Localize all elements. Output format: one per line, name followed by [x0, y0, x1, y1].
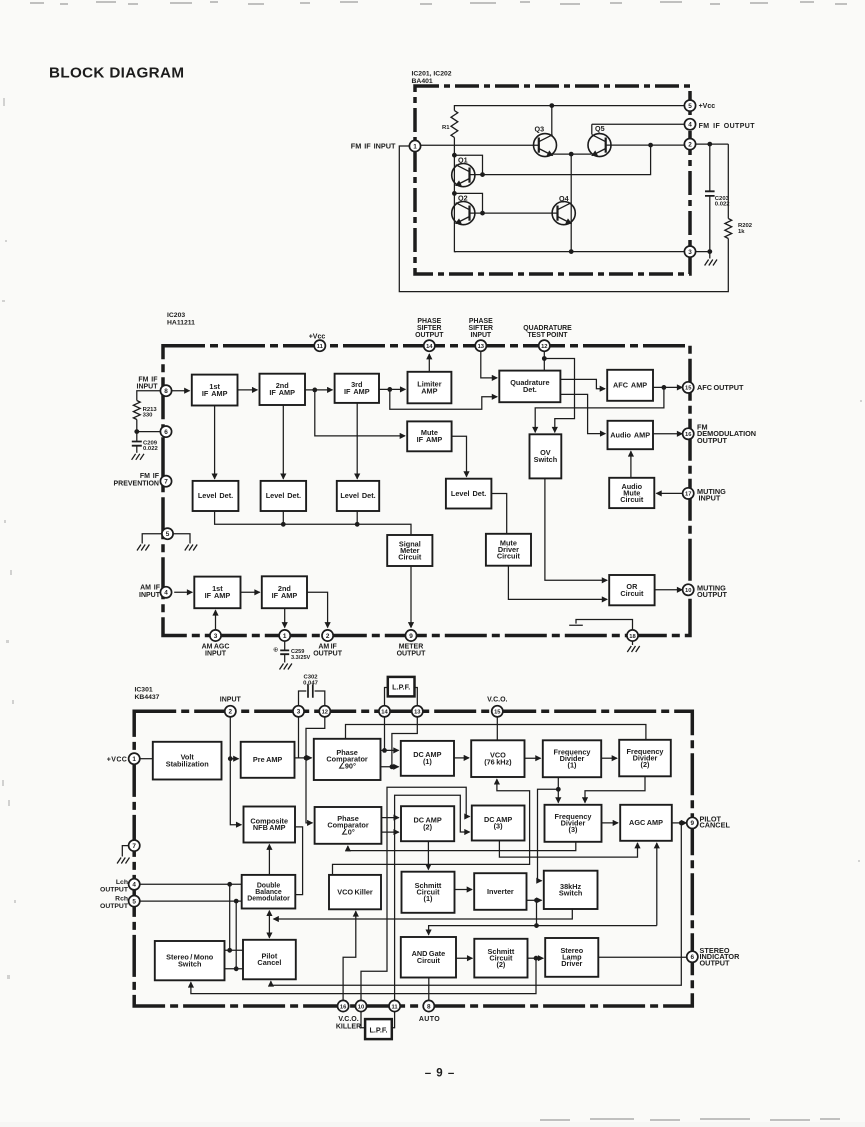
svg-text:(2): (2): [641, 760, 650, 769]
label PILOT CANCEL: [700, 814, 731, 829]
junction Q2 base: [480, 211, 485, 216]
svg-text:Q4: Q4: [559, 194, 569, 203]
svg-text:3: 3: [297, 709, 301, 716]
wire R213 bottom to pin6 node: [137, 420, 161, 432]
block Pilot Cancel: [243, 940, 296, 980]
junction pin14 tap: [382, 748, 387, 753]
wire composite NFB amp to demodulator: [295, 827, 303, 895]
wire Q5 base to pin2 rail: [606, 144, 685, 146]
svg-text:SIFTER: SIFTER: [469, 325, 494, 332]
block AGC AMP: [620, 805, 672, 841]
svg-text:L.P.F.: L.P.F.: [369, 1025, 387, 1034]
pin 2 (input): [225, 706, 236, 717]
wire pin13 to quadrature det: [481, 352, 497, 378]
svg-text:AM IF: AM IF: [140, 585, 161, 592]
junction Q1 emitter / Q2 collector: [452, 191, 457, 196]
wire mute driver to OR circuit: [508, 566, 607, 600]
pin 13b: [412, 706, 423, 717]
svg-text:11: 11: [392, 1004, 399, 1010]
svg-text:OUTPUT: OUTPUT: [697, 590, 728, 599]
label MUTING OUTPUT: [697, 584, 728, 599]
svg-text:⊕: ⊕: [273, 647, 279, 654]
block OR Circuit: [609, 575, 654, 605]
svg-text:Q5: Q5: [595, 124, 605, 133]
svg-text:PHASE: PHASE: [417, 318, 441, 325]
svg-text:Circuit: Circuit: [620, 495, 644, 504]
wire stereo/mono to pilot cancel upper stub: [225, 949, 244, 951]
label +Vcc: [699, 103, 716, 110]
svg-text:INPUT: INPUT: [697, 493, 721, 502]
junction AFC output: [662, 385, 667, 390]
pin 4 (AM IF input): [160, 587, 171, 598]
svg-text:Circuit: Circuit: [398, 552, 422, 561]
svg-text:+Vcc: +Vcc: [699, 103, 716, 110]
pin 3 (AM AGC input): [210, 630, 221, 641]
svg-text:8: 8: [427, 1003, 431, 1010]
junction after 2nd IF AMP: [312, 388, 317, 393]
wire OV switch to OR circuit: [545, 478, 607, 580]
wire schmitt 2 net to stereo/mono switch: [191, 958, 536, 993]
svg-text:(1): (1): [568, 761, 577, 770]
block Stereo/Mono Switch: [155, 941, 225, 980]
label FM IF INPUT (pin8): [137, 376, 159, 390]
resistor R213 body: [133, 401, 140, 420]
svg-text:12: 12: [322, 710, 328, 716]
svg-text:IF AMP: IF AMP: [269, 388, 295, 397]
pin 6 (stereo indicator): [687, 951, 698, 962]
block Stereo Lamp Driver: [545, 938, 598, 977]
svg-text:4: 4: [132, 882, 136, 889]
svg-text:AUTO: AUTO: [419, 1016, 440, 1023]
label AM IF OUTPUT: [313, 643, 343, 657]
label Rch OUTPUT: [115, 896, 128, 903]
svg-text:OUTPUT: OUTPUT: [313, 651, 343, 658]
L.P.F. box (top, external): [388, 677, 415, 697]
wire pin12 tap to OV switch: [544, 359, 574, 433]
svg-text:2: 2: [229, 709, 233, 716]
pin 7 (FM IF prevention): [160, 476, 171, 487]
pin 15 (VCO): [492, 706, 503, 717]
block 38kHz Switch: [544, 871, 598, 909]
pin 16 (VCO killer): [338, 1000, 349, 1011]
pin 16 (FM demodulation output): [683, 428, 694, 439]
svg-text:INPUT: INPUT: [139, 592, 161, 599]
svg-text:(3): (3): [494, 822, 503, 831]
pin 5: [162, 528, 173, 539]
wire pin12 into quadrature det top: [543, 352, 545, 371]
capacitor C209: [132, 442, 142, 446]
svg-text:12: 12: [541, 344, 547, 350]
resistor R1 body: [451, 111, 458, 138]
wire bottom rail to pin3: [454, 251, 684, 253]
wire level det 3 drop: [356, 511, 358, 524]
svg-text:FM IF INPUT: FM IF INPUT: [351, 142, 396, 151]
wire 1st to 2nd IF AMP: [238, 389, 258, 391]
IC201/202 package outline (dash-dot border): [415, 86, 690, 274]
wire schmitt 1 to inverter: [455, 889, 473, 891]
pin 3: [684, 246, 695, 257]
pin 14 (phase sifter output): [424, 340, 435, 351]
svg-text:Circuit: Circuit: [417, 956, 441, 965]
svg-text:5: 5: [132, 898, 136, 905]
wire level det 2 drop: [282, 511, 284, 524]
wire Q3 collector to Vcc rail: [551, 106, 553, 135]
block OV Switch: [530, 434, 562, 478]
label C203 0.022: [715, 196, 730, 208]
svg-text:FM IF: FM IF: [138, 376, 158, 383]
svg-text:– 9 –: – 9 –: [425, 1068, 456, 1080]
svg-text:(76 kHz): (76 kHz): [484, 757, 512, 766]
capacitor C259 polarity mark: [273, 647, 279, 654]
block Level Det. 3: [337, 481, 379, 511]
wire pre amp to phase comparator 90: [295, 757, 312, 759]
transistor Q5: [588, 124, 611, 156]
svg-text:Q1: Q1: [458, 155, 468, 164]
svg-text:INPUT: INPUT: [205, 651, 227, 658]
svg-text:2: 2: [326, 633, 330, 640]
svg-text:AFC OUTPUT: AFC OUTPUT: [697, 383, 744, 392]
label Lch OUTPUT: [116, 879, 128, 886]
svg-text:V.C.O.: V.C.O.: [487, 696, 507, 703]
pin 2 (AM IF output): [322, 630, 333, 641]
svg-text:(1): (1): [423, 757, 432, 766]
svg-text:+Vcc: +Vcc: [309, 334, 326, 341]
svg-text:Demodulator: Demodulator: [247, 896, 290, 903]
page number -9-: [425, 1068, 456, 1080]
svg-text:QUADRATURE: QUADRATURE: [523, 325, 572, 332]
pin 15 (AFC output): [683, 382, 694, 393]
wire 38kHz switch to demodulator: [274, 909, 573, 919]
label FM IF PREVENTION: [113, 473, 159, 487]
block Quadrature Det.: [499, 371, 560, 403]
svg-text:Lch: Lch: [116, 879, 128, 886]
svg-text:(1): (1): [424, 894, 433, 903]
block Frequency Divider (2): [619, 740, 671, 777]
wire 3rd IF AMP to Limiter AMP: [379, 388, 405, 390]
svg-text:18: 18: [629, 634, 636, 640]
wire Q1 node down to Q2: [453, 155, 455, 193]
label PHASE SIFTER INPUT: [469, 318, 494, 339]
junction AGC output: [679, 821, 684, 826]
svg-text:OUTPUT: OUTPUT: [100, 886, 129, 893]
svg-text:Audio AMP: Audio AMP: [610, 430, 650, 439]
pin 11 (+Vcc): [314, 340, 325, 351]
wire 3rd IF to level det 3: [356, 403, 358, 479]
wire AFC feedback to OV switch: [535, 387, 664, 432]
ground below C259: [280, 664, 292, 670]
wire Q2 emitter down to bottom rail corner: [454, 193, 456, 251]
svg-text:Circuit: Circuit: [497, 552, 521, 561]
block Mute Driver Circuit: [486, 534, 531, 566]
wire AM 2nd IF AMP to pin1: [284, 608, 286, 627]
junction Q4 emitter / bottom rail: [569, 249, 574, 254]
svg-text:KB4437: KB4437: [135, 694, 160, 701]
svg-text:IF AMP: IF AMP: [417, 435, 443, 444]
wire pin8 branch to R213: [137, 391, 161, 401]
svg-text:∠90°: ∠90°: [338, 762, 356, 771]
wire pin18 stub: [569, 620, 632, 630]
pin 5 (+Vcc): [684, 100, 695, 111]
svg-text:0.022: 0.022: [715, 202, 730, 208]
label MUTING INPUT: [697, 487, 726, 502]
block Volt Stabilization: [153, 742, 222, 780]
wire R202 bottom feedback to FM IF input: [399, 146, 728, 292]
junction pin13 net tap: [390, 764, 395, 769]
svg-text:TEST POINT: TEST POINT: [527, 332, 568, 339]
wire pin2 to C203 and R202: [696, 143, 728, 145]
svg-text:1: 1: [283, 633, 287, 640]
junction after 3rd IF AMP: [387, 387, 392, 392]
svg-text:AM IF: AM IF: [318, 643, 337, 650]
wire freq div 1 tap to 38kHz switch: [538, 789, 559, 880]
svg-text:L.P.F.: L.P.F.: [392, 683, 410, 692]
svg-text:OUTPUT: OUTPUT: [697, 436, 728, 445]
wire schmitt 2 to stereo lamp driver: [528, 957, 544, 959]
svg-text:V.C.O.: V.C.O.: [338, 1016, 358, 1023]
svg-text:METER: METER: [399, 643, 424, 650]
svg-text:4: 4: [688, 122, 692, 129]
wire pin16 to VCO killer: [343, 911, 356, 1000]
ground below C209: [132, 454, 144, 460]
block 2nd IF AMP: [260, 374, 306, 405]
svg-text:IC201, IC202: IC201, IC202: [412, 71, 452, 78]
wire R1 bottom to Q1 collector node: [453, 138, 455, 156]
junction meter bus / level det 2: [281, 522, 286, 527]
svg-text:NFB AMP: NFB AMP: [253, 823, 286, 832]
pin 7b: [129, 840, 140, 851]
junction R1 / Q1 collector: [452, 153, 457, 158]
svg-text:1: 1: [132, 756, 136, 763]
block AM 2nd IF AMP: [262, 576, 307, 608]
svg-text:14: 14: [426, 344, 433, 350]
svg-text:IC301: IC301: [135, 686, 153, 693]
svg-text:10: 10: [685, 588, 691, 594]
resistor R202 body: [725, 219, 732, 239]
wire pin17 to audio mute circuit: [656, 492, 684, 494]
svg-text:Driver: Driver: [561, 959, 582, 968]
wire C209 bottom lead: [136, 446, 138, 453]
svg-text:Switch: Switch: [534, 455, 558, 464]
wire pin1 C259 lead: [284, 641, 286, 650]
svg-text:BA401: BA401: [412, 78, 433, 85]
svg-text:9: 9: [691, 820, 695, 827]
capacitor C259 plates: [280, 650, 289, 654]
label PHASE SIFTER OUTPUT: [415, 318, 444, 339]
svg-text:IC203: IC203: [167, 312, 185, 319]
svg-text:3: 3: [214, 633, 218, 640]
wire inverter net to 19kHz bus: [536, 900, 538, 925]
svg-text:Q3: Q3: [535, 125, 545, 134]
wire AFC AMP to pin15: [653, 386, 682, 388]
wire 1st IF to level det 1: [214, 406, 216, 479]
wire Vcc rail pin5 to R1 top: [454, 106, 684, 111]
pin 1: [279, 630, 290, 641]
svg-text:Inverter: Inverter: [487, 887, 514, 896]
wire pin2 tap down to Q1 base line: [470, 145, 651, 175]
svg-text:INPUT: INPUT: [220, 696, 242, 703]
svg-text:1k: 1k: [738, 229, 745, 235]
pin 12b: [319, 706, 330, 717]
label FM IF INPUT: [351, 142, 396, 151]
wire pin12 drop to phase comparator 0: [306, 717, 325, 823]
transistor Q4: [552, 194, 575, 225]
block 1st IF AMP: [192, 375, 238, 406]
svg-text:5: 5: [166, 531, 170, 538]
svg-text:R1: R1: [442, 125, 450, 131]
ground below C203: [705, 260, 717, 266]
svg-text:330: 330: [143, 413, 154, 419]
wire AM 2nd IF AMP to pin2: [307, 592, 328, 627]
pin 3b: [293, 706, 304, 717]
pin 12 (quadrature test point): [539, 340, 550, 351]
wire quadrature out to AFC AMP: [560, 379, 605, 388]
pin 6: [160, 426, 171, 437]
pin 9 (meter output): [405, 630, 416, 641]
wire R202 top lead: [727, 144, 729, 218]
svg-text:Switch: Switch: [559, 889, 583, 898]
label R213 330: [143, 407, 158, 419]
svg-text:1: 1: [413, 143, 417, 150]
label AM IF INPUT (pin4m): [139, 585, 161, 599]
wire VCO to freq divider 1: [525, 757, 541, 759]
svg-text:0.022: 0.022: [143, 446, 158, 452]
IC designator IC201, IC202 / BA401: [412, 71, 452, 85]
svg-text:3.3/25V: 3.3/25V: [291, 655, 311, 661]
wire pin11 net to DC amp 3 lower: [395, 795, 470, 1000]
wire C259 bottom lead: [284, 654, 286, 662]
junction freq divider 1 output: [556, 787, 561, 792]
wire freq divider 3 to phase comp 0: [348, 842, 576, 851]
junction pin12 net / preamp output: [304, 756, 309, 761]
wire demodulator to pilot cancel (bidirectional): [268, 911, 270, 938]
block AM 1st IF AMP: [194, 577, 240, 609]
svg-text:+VCC: +VCC: [107, 757, 127, 764]
block Frequency Divider (3): [545, 805, 602, 842]
wire FM IF input rail pin1 to Q3 base: [409, 144, 538, 147]
wire pin3 to AM 1st IF AMP agc: [215, 610, 217, 629]
wire C203 top lead: [709, 144, 711, 191]
svg-text:(2): (2): [423, 822, 432, 831]
svg-text:4: 4: [164, 590, 168, 597]
svg-text:10: 10: [358, 1004, 364, 1010]
wire emitter tie down to bottom rail through Q4: [570, 154, 572, 252]
pin 17 (muting input): [683, 488, 694, 499]
svg-text:INPUT: INPUT: [470, 332, 491, 339]
svg-text:0.047: 0.047: [303, 681, 318, 687]
block 3rd IF AMP: [335, 374, 379, 403]
block Level Det. 1: [193, 481, 239, 511]
svg-text:Cancel: Cancel: [257, 958, 281, 967]
svg-text:8: 8: [164, 388, 168, 395]
wire AND gate to schmitt 2: [456, 957, 472, 959]
junction R213/C209/pin6: [134, 429, 139, 434]
svg-text:Level Det.: Level Det.: [266, 491, 301, 500]
label +VCC: [107, 757, 127, 764]
pin 18: [627, 630, 638, 641]
transistor Q3: [534, 125, 557, 157]
svg-text:(2): (2): [496, 960, 505, 969]
svg-text:HA11211: HA11211: [167, 319, 195, 326]
pin 1 (+VCC): [129, 753, 140, 764]
svg-text:Level Det.: Level Det.: [198, 491, 233, 500]
wire pin5 ground leads: [142, 534, 190, 544]
wire DC amp 1 to VCO: [454, 757, 469, 759]
block Signal Meter Circuit: [387, 535, 432, 566]
wire signal meter to pin9: [410, 566, 412, 628]
svg-text:Rch: Rch: [115, 896, 128, 903]
block Phase Comparator 0: [315, 807, 382, 844]
junction Q1 base: [480, 172, 485, 177]
junction pin12 tap: [542, 356, 547, 361]
junction C203 / pin2 rail: [707, 142, 712, 147]
junction upper stub: [227, 948, 232, 953]
junction Q3 collector / Vcc rail: [549, 103, 554, 108]
svg-text:BLOCK DIAGRAM: BLOCK DIAGRAM: [49, 65, 184, 82]
svg-text:6: 6: [691, 954, 695, 961]
svg-text:Stabilization: Stabilization: [166, 759, 209, 768]
svg-text:KILLER: KILLER: [336, 1023, 361, 1030]
svg-text:AMP: AMP: [421, 386, 437, 395]
svg-text:Q2: Q2: [458, 193, 468, 202]
wire mute IF amp to level det 4: [452, 436, 467, 476]
wire pin2 branch to composite NFB amp: [230, 759, 241, 825]
svg-text:OUTPUT: OUTPUT: [700, 959, 731, 968]
wire pin13 to top LPF: [415, 688, 418, 706]
wire 3rd IF tap to quadrature input: [390, 389, 497, 409]
wire pin14 drop: [384, 717, 386, 750]
junction Lch branch: [227, 882, 232, 887]
svg-text:(3): (3): [569, 825, 578, 834]
junction pin2 rail tap: [648, 143, 653, 148]
pin 4 (FM IF OUTPUT): [684, 119, 695, 130]
pin 11b: [389, 1000, 400, 1011]
svg-text:13: 13: [478, 344, 485, 350]
label +Vcc (pin11): [309, 334, 326, 341]
wire phase comp 90 lower output to DC amp 1: [381, 766, 399, 768]
wire freq divider 1 to freq divider 3: [557, 777, 559, 802]
wire pin18 ground lead: [632, 641, 634, 645]
pin 8 (auto): [423, 1000, 434, 1011]
svg-text:17: 17: [685, 492, 691, 498]
wire pin8 to AND gate: [428, 978, 430, 1001]
svg-text:IF AMP: IF AMP: [272, 591, 298, 600]
block Frequency Divider (1): [543, 740, 601, 777]
svg-text:16: 16: [685, 432, 692, 438]
IC203 package outline (dash-dot border): [163, 346, 690, 636]
junction pin2 input branch: [228, 756, 233, 761]
pin 4 (Lch output): [129, 879, 140, 890]
block DC AMP (1): [401, 741, 454, 776]
wire Rch branch down: [235, 901, 237, 969]
wire pin15 into VCO: [496, 717, 498, 740]
label V.C.O. (pin15): [487, 696, 507, 703]
label R1: [442, 125, 450, 131]
svg-text:5: 5: [688, 103, 692, 110]
wire pin1 to volt stabilization: [140, 758, 153, 760]
svg-text:FM IF OUTPUT: FM IF OUTPUT: [699, 123, 756, 130]
wire AGC amp to pin9: [672, 822, 687, 824]
svg-text:PHASE: PHASE: [469, 318, 493, 325]
wire phase comp 0 upper output to DC amp 2: [381, 817, 398, 819]
svg-text:AGC AMP: AGC AMP: [629, 818, 663, 827]
svg-text:Level Det.: Level Det.: [451, 489, 486, 498]
svg-text:IF AMP: IF AMP: [202, 389, 228, 398]
label C209 0.022: [143, 440, 158, 452]
wire pin7 ground lead: [122, 846, 128, 857]
svg-text:14: 14: [381, 710, 388, 716]
wire AGC net to pilot cancel: [271, 823, 681, 985]
wire 19kHz bus AGC right input: [656, 843, 658, 926]
